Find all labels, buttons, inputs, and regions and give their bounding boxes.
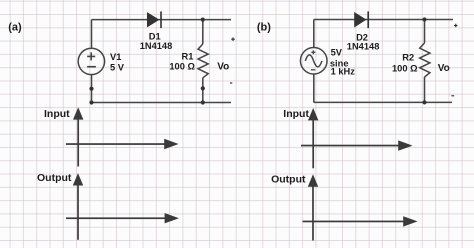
wire resistor branch top (b): [424, 20, 426, 44]
svg-text:5V: 5V: [331, 47, 343, 57]
junction dots circuit (a): [89, 18, 204, 105]
wire resistor branch bottom (b): [424, 77, 426, 102]
svg-text:V1: V1: [110, 52, 121, 62]
plus mark (b): [454, 24, 457, 27]
svg-text:1N4148: 1N4148: [140, 41, 173, 51]
svg-text:R1: R1: [182, 52, 194, 62]
wire below source V1: [91, 74, 93, 102]
output axis (a) vertical arrow: [73, 173, 83, 240]
diode D2: [355, 11, 370, 28]
output axis (a) horizontal arrow: [66, 213, 179, 223]
svg-text:Vo: Vo: [438, 63, 450, 74]
svg-text:Input: Input: [44, 108, 70, 120]
svg-text:100 Ω: 100 Ω: [169, 62, 195, 72]
voltage source V1: [78, 48, 104, 74]
input axis (a) horizontal arrow: [66, 139, 179, 149]
output axis (b) horizontal arrow: [303, 216, 418, 226]
minus mark (b): [451, 95, 454, 97]
svg-text:1 kHz: 1 kHz: [331, 67, 356, 77]
svg-text:D1: D1: [149, 31, 161, 41]
wire below source V2: [313, 74, 315, 102]
resistor R1: [198, 44, 208, 78]
ac source V2: [300, 47, 327, 74]
svg-text:100 Ω: 100 Ω: [392, 64, 418, 74]
svg-text:(a): (a): [8, 21, 22, 33]
junction dots circuit (b): [422, 17, 426, 104]
plus mark (a): [231, 37, 235, 41]
input axis (b) vertical arrow: [308, 108, 318, 168]
svg-text:Input: Input: [283, 108, 309, 120]
output axis (b) vertical arrow: [308, 174, 318, 240]
svg-text:(b): (b): [257, 22, 271, 34]
wire bottom rail (a): [92, 102, 232, 104]
svg-text:5 V: 5 V: [110, 63, 125, 73]
minus mark (a): [230, 82, 232, 84]
input axis (b) horizontal arrow: [301, 140, 413, 150]
svg-text:Vo: Vo: [217, 61, 229, 72]
wire bottom rail (b): [314, 101, 452, 103]
svg-text:Output: Output: [271, 173, 306, 185]
svg-text:Output: Output: [37, 172, 72, 184]
wire left vertical (a): [91, 20, 93, 49]
wire resistor branch top (a): [202, 20, 204, 44]
wire top rail (b): [314, 20, 453, 103]
input axis (a) vertical arrow: [73, 107, 83, 166]
svg-text:R2: R2: [402, 53, 414, 63]
wire top rail (a): [92, 19, 232, 21]
wire resistor branch bottom (a): [202, 78, 204, 103]
resistor R2: [420, 43, 430, 77]
diode D1: [147, 11, 162, 28]
wire left vertical (b): [313, 20, 315, 48]
svg-text:1N4148: 1N4148: [347, 41, 380, 51]
